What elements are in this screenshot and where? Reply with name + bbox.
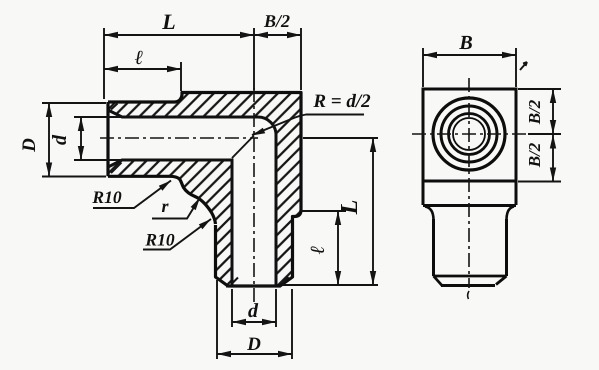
stub bottom face (441, 284, 495, 287)
hatch accent in bottom lip (111, 163, 289, 284)
dimension D (bottom): extension lines (217, 280, 292, 359)
svg-text:ℓ: ℓ (135, 47, 144, 69)
svg-text:B: B (458, 32, 472, 54)
vertical bore centerline (253, 88, 255, 302)
stub chamfers (434, 276, 507, 286)
dimension L (right vertical): line (372, 138, 374, 285)
arrows D left (46, 103, 52, 117)
side view horizontal centerline (412, 133, 528, 135)
second circle (441, 106, 497, 162)
leader R10 lower (143, 219, 211, 250)
dimension d (bottom): line (232, 321, 276, 323)
svg-text:B/2: B/2 (525, 99, 544, 125)
arrowhead leader R=d/2 (252, 128, 265, 136)
svg-text:R = d/2: R = d/2 (312, 91, 371, 112)
bottom pipe end face edge (226, 285, 281, 288)
svg-text:d: d (248, 300, 259, 322)
dimension d (left): line (80, 117, 82, 160)
svg-text:D: D (246, 334, 261, 355)
leader r (152, 198, 200, 219)
dimension L (right vertical): extension lines (282, 138, 378, 285)
arrows L top (104, 32, 118, 38)
dimension l (top): extension line (180, 62, 182, 91)
outer outline of elbow body (108, 93, 301, 287)
dimension D (left): extension lines (42, 103, 106, 177)
dimension D (bottom): line (217, 353, 292, 355)
inner bore circle (453, 118, 485, 150)
outer circle (boss) (433, 98, 505, 170)
svg-text:D: D (19, 138, 40, 153)
dimension l (top): line (104, 68, 181, 70)
dimension L (top): extension lines (104, 28, 254, 99)
leader R10 upper (93, 181, 171, 209)
shoulder sides below square (423, 181, 516, 205)
svg-text:L: L (161, 9, 175, 34)
svg-text:d: d (49, 134, 71, 145)
svg-text:r: r (161, 196, 169, 216)
dimension l (right vertical): line (337, 211, 339, 285)
dimension B: line (423, 54, 516, 56)
wavy cast fillet profile R10-r-R10 (108, 176, 216, 224)
arrowhead leader r (191, 198, 200, 211)
dimension L (top): line (104, 34, 254, 36)
pipe stub sides (434, 219, 507, 276)
arrows B (423, 52, 437, 58)
dimension d (left): extension lines (74, 117, 121, 160)
fillet left shoulder to stub (425, 207, 434, 221)
small tick mark (520, 62, 527, 70)
arrows L right vertical (370, 138, 376, 152)
arrows B/2 upper (550, 89, 556, 103)
bore top edge with entry chamfer and corner radius R=d/2 (108, 110, 276, 286)
svg-text:R10: R10 (91, 187, 121, 207)
third circle (thread major) (449, 114, 490, 155)
stub chamfer edge circle line (434, 275, 507, 278)
dimension B: extension lines (423, 48, 516, 87)
svg-text:B/2: B/2 (525, 142, 544, 168)
arrows l top (104, 66, 118, 72)
dimension d (bottom): extension lines (232, 289, 276, 327)
arrows B/2 top (254, 32, 268, 38)
arrows B/2 lower (550, 135, 556, 149)
dimension D (left): line (48, 103, 50, 177)
arrowhead leader R10 lower (199, 219, 211, 229)
svg-text:ℓ: ℓ (307, 246, 329, 255)
dimension B/2 B/2 (right): extension lines (518, 89, 561, 182)
bore bottom edge with entry chamfer (108, 160, 232, 286)
dimension l (right vertical): extension line (301, 210, 346, 212)
svg-text:R10: R10 (144, 229, 174, 249)
side view vertical centerline (468, 78, 470, 288)
hatch accent in top lip (111, 104, 238, 284)
left face edge (106, 102, 109, 176)
arrows d bottom (232, 319, 246, 325)
fillet right shoulder to stub (507, 207, 515, 221)
dimension B/2 B/2 (right): line (552, 89, 554, 182)
square head outline (423, 89, 516, 181)
arrowhead leader R10 upper (159, 181, 171, 191)
svg-text:B/2: B/2 (263, 11, 290, 31)
section hatch fill of elbow body (front section view) (108, 93, 301, 287)
shoulder face edge (423, 204, 516, 207)
arrows D bottom (217, 351, 231, 357)
leader R=d/2 (232, 115, 364, 159)
dimension B/2 (top): line (254, 34, 301, 36)
arrows d left (78, 117, 84, 131)
svg-text:L: L (337, 200, 363, 216)
centerline tail curl (468, 291, 469, 299)
horizontal bore centerline (100, 137, 258, 139)
dimension B/2 (top): extension line right (300, 28, 302, 90)
arrows l right vertical (335, 211, 341, 225)
